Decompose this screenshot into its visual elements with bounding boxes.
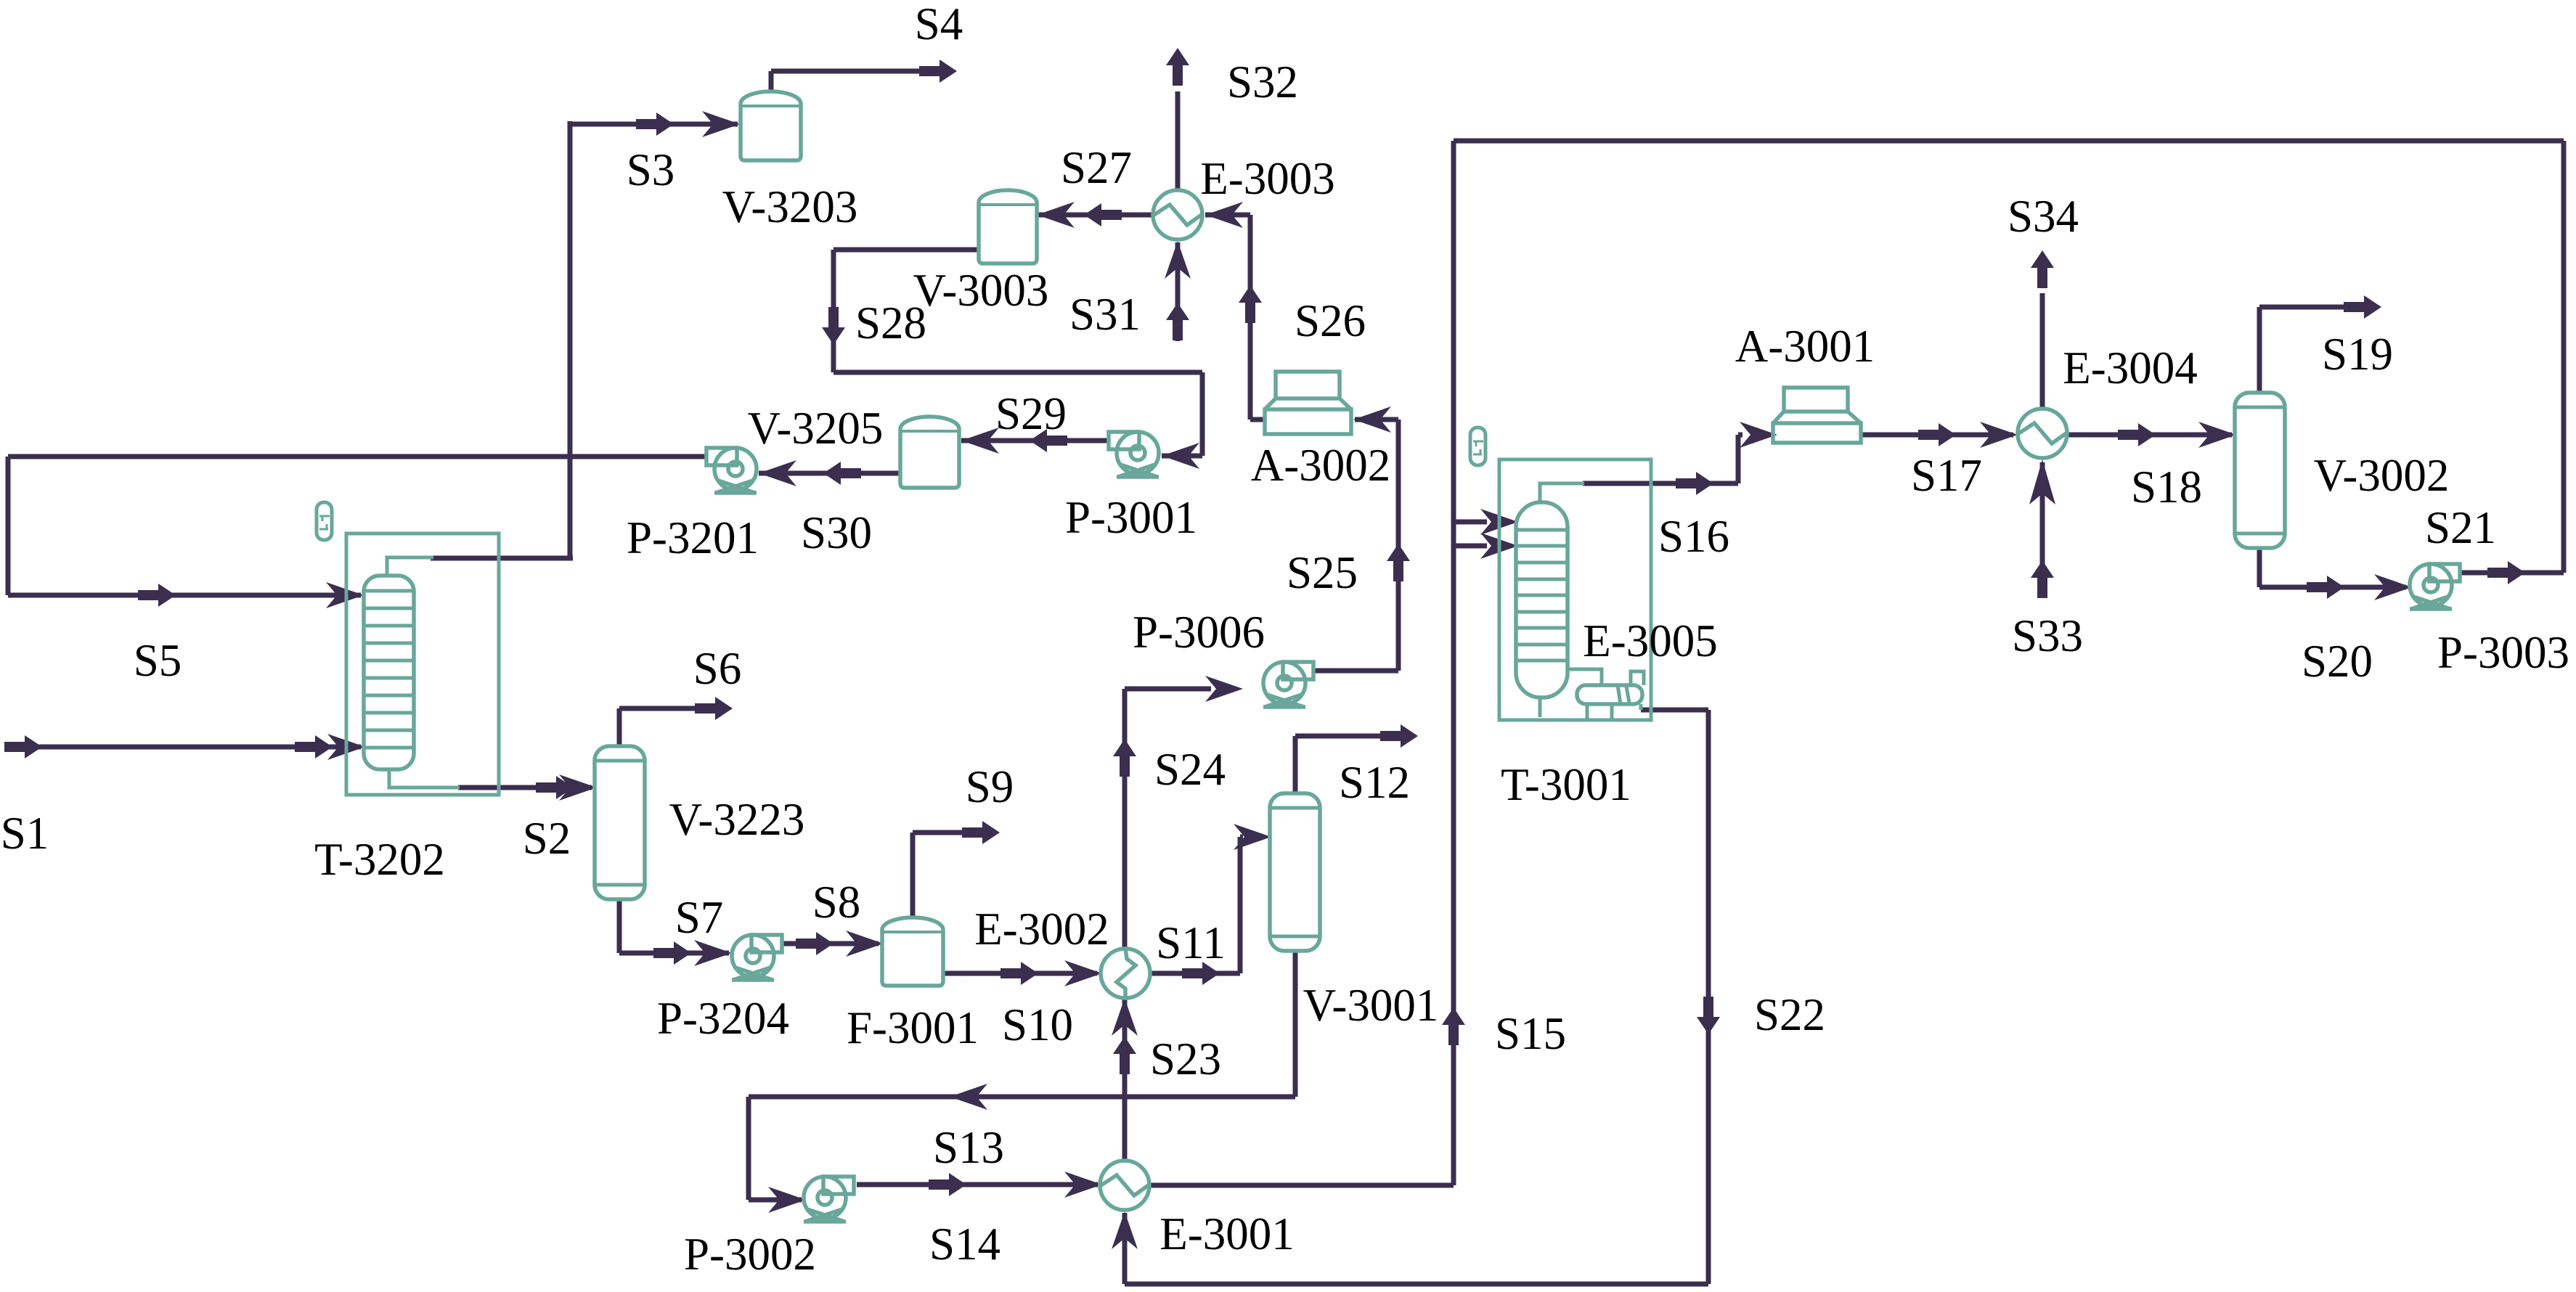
svg-text:V-3003: V-3003: [913, 265, 1049, 316]
svg-text:S25: S25: [1287, 547, 1358, 598]
svg-text:V-3205: V-3205: [748, 403, 884, 454]
svg-text:S2: S2: [523, 813, 571, 864]
svg-text:S6: S6: [693, 643, 742, 694]
svg-text:E-3005: E-3005: [1583, 616, 1717, 666]
svg-text:S1: S1: [1, 808, 49, 859]
svg-text:E-3001: E-3001: [1159, 1209, 1294, 1259]
svg-text:S33: S33: [2012, 610, 2083, 661]
svg-text:S4: S4: [915, 0, 963, 49]
svg-text:S26: S26: [1295, 295, 1366, 346]
svg-text:S8: S8: [812, 877, 861, 928]
svg-text:P-3002: P-3002: [684, 1229, 816, 1280]
svg-text:S16: S16: [1658, 511, 1729, 562]
svg-text:S12: S12: [1339, 757, 1410, 808]
svg-text:T-3001: T-3001: [1501, 759, 1631, 810]
svg-text:F-3001: F-3001: [847, 1002, 979, 1053]
svg-text:S24: S24: [1154, 744, 1226, 795]
svg-text:P-3003: P-3003: [2437, 627, 2569, 678]
svg-text:S7: S7: [675, 892, 724, 943]
svg-text:S11: S11: [1156, 917, 1226, 968]
svg-text:P-3204: P-3204: [657, 993, 789, 1044]
svg-text:S13: S13: [933, 1122, 1004, 1173]
svg-text:E-3004: E-3004: [2063, 343, 2197, 393]
svg-text:V-3203: V-3203: [722, 181, 858, 232]
svg-text:S3: S3: [627, 144, 675, 195]
svg-text:S29: S29: [995, 388, 1067, 439]
svg-text:S18: S18: [2131, 462, 2202, 512]
svg-text:S23: S23: [1150, 1034, 1221, 1084]
svg-text:S20: S20: [2302, 636, 2373, 687]
svg-text:A-3002: A-3002: [1251, 440, 1390, 491]
svg-text:S19: S19: [2322, 329, 2393, 380]
svg-text:S10: S10: [1002, 999, 1073, 1050]
svg-text:S32: S32: [1227, 57, 1298, 107]
svg-text:S31: S31: [1069, 289, 1141, 340]
svg-text:V-3223: V-3223: [669, 794, 805, 845]
svg-text:V-3001: V-3001: [1303, 980, 1439, 1031]
svg-text:S9: S9: [966, 761, 1014, 812]
svg-text:S21: S21: [2425, 502, 2496, 553]
svg-text:S17: S17: [1911, 450, 1982, 501]
svg-text:S22: S22: [1754, 989, 1825, 1040]
svg-text:P-3006: P-3006: [1133, 607, 1265, 658]
svg-text:E-3002: E-3002: [974, 904, 1109, 954]
svg-text:P-3201: P-3201: [627, 512, 759, 563]
svg-text:S30: S30: [801, 507, 872, 558]
svg-text:E-3003: E-3003: [1200, 153, 1334, 204]
svg-text:S27: S27: [1061, 142, 1132, 193]
svg-text:P-3001: P-3001: [1065, 492, 1197, 543]
svg-text:T-3202: T-3202: [314, 834, 445, 885]
svg-text:S15: S15: [1495, 1008, 1566, 1059]
svg-text:S14: S14: [929, 1219, 1000, 1269]
svg-text:V-3002: V-3002: [2314, 450, 2450, 501]
svg-text:A-3001: A-3001: [1735, 321, 1875, 372]
svg-text:S34: S34: [2008, 191, 2079, 242]
svg-text:S5: S5: [134, 635, 182, 686]
